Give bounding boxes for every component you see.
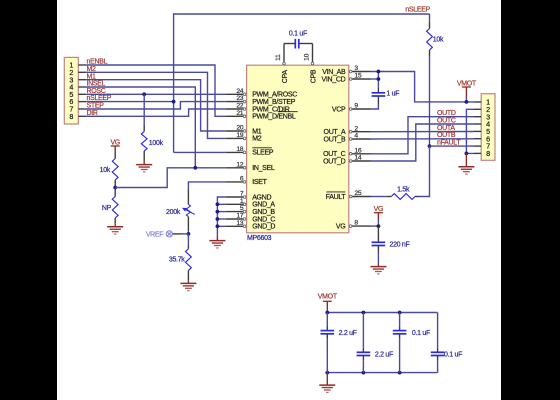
svg-text:nFAULT: nFAULT	[437, 140, 461, 147]
svg-text:OUTA: OUTA	[437, 125, 455, 132]
testpoint VREF lead	[172, 233, 188, 235]
wires GND_A..GND_D with junctions	[216, 202, 226, 228]
svg-text:ISET: ISET	[252, 179, 267, 186]
junction VG divider	[113, 186, 117, 190]
junction bottom rail C3	[398, 371, 402, 375]
svg-text:10k: 10k	[433, 36, 444, 43]
svg-text:2: 2	[354, 125, 358, 132]
svg-text:VREF: VREF	[146, 231, 163, 238]
svg-text:15: 15	[354, 73, 361, 80]
connector JP2 (motor/power header) body	[481, 94, 495, 161]
junction top rail C1	[325, 311, 329, 315]
svg-text:VG: VG	[336, 223, 346, 230]
U1 left pin names	[252, 92, 298, 231]
junction bottom rail C1	[325, 371, 329, 375]
black matte left	[0, 0, 57, 400]
svg-text:10k: 10k	[100, 167, 111, 174]
junction VIN_CD	[377, 77, 381, 81]
power symbol VG (right)	[374, 206, 384, 213]
VG right lead	[377, 213, 379, 226]
wire pot to VREF junction	[187, 231, 189, 234]
svg-text:OUTB: OUTB	[437, 132, 456, 139]
U1 top pin names CPA CPB	[282, 69, 318, 83]
svg-text:1 uF: 1 uF	[386, 91, 399, 98]
junction top rail C3	[398, 311, 402, 315]
svg-text:4: 4	[354, 133, 358, 140]
resistor 10k (VG divider)	[112, 159, 118, 181]
resistor 1.5k lead left	[386, 196, 391, 198]
svg-text:25: 25	[354, 190, 361, 197]
capacitor 0.1uF (charge pump) leads	[284, 43, 313, 45]
label 0.1 uF (top)	[289, 30, 307, 37]
svg-text:OUT_A: OUT_A	[324, 129, 346, 136]
svg-text:21: 21	[236, 110, 243, 117]
junction bottom rail C2	[362, 371, 366, 375]
wire OUT_B	[371, 138, 474, 140]
junction ROSC/100k	[142, 92, 146, 96]
label 35.7k	[169, 257, 185, 264]
capacitor 220nF	[372, 242, 386, 245]
resistor 35.7k lead top	[187, 234, 189, 249]
ground under 100k	[136, 165, 152, 172]
capacitor 220nF lead bottom	[377, 246, 379, 266]
U1 right pin stubs	[349, 70, 370, 227]
power symbol VMOT (right)	[457, 81, 477, 88]
svg-text:VMOT: VMOT	[318, 294, 338, 301]
ground under right connector	[458, 167, 474, 174]
wire GND pins 2-8	[466, 109, 473, 153]
connector JP1 pin numbers 1-8	[69, 61, 73, 121]
label nFAULT	[437, 140, 461, 147]
wire AGND bus	[217, 197, 225, 236]
cap bank ground lead	[326, 373, 328, 385]
svg-text:14: 14	[354, 155, 361, 162]
capacitor 2.2uF (C2)	[357, 313, 371, 373]
svg-text:19: 19	[236, 132, 243, 139]
U1 top pin numbers 11 10	[275, 53, 311, 60]
VG lead	[114, 146, 116, 159]
svg-text:8: 8	[354, 220, 358, 227]
svg-text:2.2 uF: 2.2 uF	[339, 330, 357, 337]
wire nENBL	[86, 65, 226, 116]
wire 10k down to nFAULT	[429, 56, 431, 146]
junction nFAULT	[428, 144, 432, 148]
svg-text:PWM_D/ENBL: PWM_D/ENBL	[252, 114, 296, 121]
resistor 1.5k	[391, 194, 415, 200]
op-amp U1 MP6603 body	[247, 65, 349, 233]
svg-text:0.1 uF: 0.1 uF	[289, 30, 307, 37]
svg-text:100k: 100k	[149, 140, 164, 147]
ground under AGND bus	[209, 241, 225, 248]
resistor 10k pull lead bottom	[429, 50, 431, 56]
svg-text:23: 23	[236, 95, 243, 102]
capacitor 2.2uF (C1)	[321, 313, 335, 373]
svg-text:OUT_D: OUT_D	[323, 158, 345, 165]
net labels nENBL M2 M1 INSEL ROSC nSLEEP STEP DIR	[87, 59, 112, 117]
wire STEP	[86, 102, 226, 109]
resistor 10k lead bottom	[114, 180, 116, 188]
resistor 10k pull lead top	[429, 23, 431, 29]
wire VIN vertical	[377, 72, 379, 89]
ground under cap bank	[319, 385, 335, 392]
svg-text:NP: NP	[102, 205, 112, 212]
testpoint VREF symbol	[166, 231, 172, 237]
svg-text:IN_SEL: IN_SEL	[252, 165, 275, 172]
svg-text:PWM_B/STEP: PWM_B/STEP	[252, 99, 296, 106]
svg-text:OUT_B: OUT_B	[324, 136, 346, 143]
svg-text:9: 9	[354, 103, 358, 110]
U1 left pin stubs	[226, 93, 246, 228]
VMOT lead	[465, 87, 467, 102]
wire M1	[86, 80, 226, 131]
junction VG	[377, 224, 381, 228]
wire nSLEEP horizontal	[86, 101, 174, 103]
svg-text:SLEEP: SLEEP	[252, 150, 274, 157]
potentiometer 200k lead bottom	[187, 217, 189, 232]
resistor NP lead top	[114, 188, 116, 197]
wire nFAULT vertical to 1.5k	[420, 146, 430, 196]
svg-text:M1: M1	[252, 128, 262, 135]
junction VREF	[187, 232, 191, 236]
potentiometer 200k	[186, 204, 190, 216]
svg-text:0.1 uF: 0.1 uF	[444, 352, 462, 359]
svg-text:0.1 uF: 0.1 uF	[412, 330, 430, 337]
junction top rail C2	[362, 311, 366, 315]
wire ROSC to 100k	[143, 94, 145, 125]
label nSLEEP (top)	[405, 7, 430, 14]
wire VIN_CD	[371, 78, 379, 80]
resistor 35.7k	[186, 249, 192, 271]
svg-text:3: 3	[354, 65, 358, 72]
svg-text:20: 20	[236, 125, 243, 132]
svg-text:GND_D: GND_D	[252, 224, 275, 231]
wire VG pin	[371, 225, 379, 227]
svg-text:1.5k: 1.5k	[397, 186, 410, 193]
U1 top pin stubs CPA CPB	[283, 44, 314, 65]
label OUTA	[437, 125, 455, 132]
connector JP2 pin numbers 1-8	[486, 98, 490, 158]
black matte right	[501, 0, 560, 400]
label 100k	[149, 140, 164, 147]
label OUTB	[437, 132, 456, 139]
U1 right pin numbers	[354, 65, 361, 227]
svg-text:M2: M2	[252, 136, 262, 143]
label 10k (VG divider)	[100, 167, 111, 174]
svg-text:24: 24	[236, 88, 243, 95]
wire M2	[86, 72, 226, 138]
wire ROSC	[86, 93, 226, 95]
wire OUT_A	[371, 131, 474, 133]
capacitor 0.1uF (C3)	[393, 313, 407, 373]
label NP	[102, 205, 112, 212]
U1 right pin names	[322, 69, 347, 231]
svg-text:CPB: CPB	[310, 69, 317, 83]
svg-text:GND_C: GND_C	[252, 216, 275, 223]
svg-text:5: 5	[240, 205, 244, 212]
svg-text:18: 18	[236, 146, 243, 153]
svg-text:8: 8	[486, 149, 490, 158]
svg-text:PWM_C/DIR: PWM_C/DIR	[252, 106, 290, 113]
resistor 35.7k lead bottom	[187, 270, 189, 283]
label 200k	[166, 209, 181, 216]
power symbol VMOT (bottom)	[318, 294, 338, 302]
svg-text:VIN_CD: VIN_CD	[322, 76, 346, 83]
label 1 uF	[386, 91, 399, 98]
U1 left pin numbers	[236, 88, 243, 227]
label OUTD	[437, 110, 456, 117]
svg-text:VCP: VCP	[332, 106, 346, 113]
label 0.1 uF (C4)	[444, 352, 462, 359]
wire nSLEEP vertical to top	[174, 14, 430, 152]
potentiometer 200k wiper arrow	[182, 208, 195, 215]
svg-text:VIN_AB: VIN_AB	[322, 69, 346, 76]
svg-text:22: 22	[236, 103, 243, 110]
svg-text:220 nF: 220 nF	[390, 241, 410, 248]
capacitor 1uF lead bottom	[377, 96, 379, 104]
wire VIN_AB	[371, 72, 474, 102]
svg-text:13: 13	[236, 220, 243, 227]
label MP6603	[247, 235, 272, 242]
resistor 100k	[141, 132, 147, 152]
resistor NP	[112, 197, 118, 219]
wire nSLEEP down to 10k	[429, 14, 431, 23]
resistor 1.5k lead right	[415, 196, 420, 198]
junction GND pin 8	[465, 152, 469, 156]
svg-text:OUT_C: OUT_C	[323, 151, 345, 158]
svg-text:GND_A: GND_A	[252, 202, 275, 209]
svg-text:CPA: CPA	[282, 70, 289, 84]
svg-text:PWM_A/ROSC: PWM_A/ROSC	[252, 92, 297, 99]
label OUTC	[437, 118, 456, 125]
label 2.2 uF (C2)	[375, 352, 393, 359]
svg-text:8: 8	[69, 112, 73, 121]
capacitor 1uF	[372, 93, 386, 96]
AGND bus lead to ground	[216, 236, 218, 240]
resistor 100k lead top	[143, 125, 145, 132]
connector JP1 pin stubs	[78, 65, 86, 116]
resistor NP lead bottom	[114, 218, 116, 226]
label 2.2 uF (C1)	[339, 330, 357, 337]
capacitor 1uF lead top	[377, 88, 379, 93]
wire cap bank bottom rail	[327, 372, 437, 374]
junction nSLEEP tee	[172, 100, 176, 104]
capacitor 0.1uF (charge pump)	[295, 39, 299, 49]
junction VIN_AB	[377, 70, 381, 74]
wire INSEL	[86, 87, 195, 168]
capacitor 0.1uF (C4)	[431, 313, 445, 373]
wire VCP	[371, 105, 379, 110]
connector JP1 (control header) body	[64, 57, 78, 124]
svg-text:16: 16	[354, 147, 361, 154]
wire DIR	[86, 109, 226, 116]
resistor 100k lead bottom	[143, 151, 145, 164]
junction VMOT	[465, 100, 469, 104]
svg-text:MP6603: MP6603	[247, 235, 272, 242]
label 220 nF	[390, 241, 410, 248]
wire ISET	[188, 182, 225, 190]
ground under 220nF	[370, 267, 386, 274]
wire SLEEP to pin 18	[174, 151, 226, 153]
capacitor 220nF lead top	[377, 226, 379, 242]
svg-text:1: 1	[240, 198, 244, 205]
svg-text:200k: 200k	[166, 209, 181, 216]
svg-text:AGND: AGND	[252, 194, 271, 201]
svg-text:OUTD: OUTD	[437, 110, 456, 117]
resistor 10k (nSLEEP pull-up)	[427, 29, 433, 51]
svg-text:nSLEEP: nSLEEP	[405, 7, 430, 14]
wire OUT_D	[371, 124, 474, 161]
svg-text:GND_B: GND_B	[252, 209, 275, 216]
power symbol VG (left)	[110, 140, 120, 147]
svg-text:FAULT: FAULT	[326, 194, 347, 201]
svg-text:10: 10	[304, 53, 311, 60]
label VREF	[146, 231, 163, 238]
connector JP2 pin stubs	[474, 102, 482, 153]
GND lead below pin 8	[465, 153, 467, 166]
wire cap bank top rail	[327, 312, 437, 314]
wire nFAULT to connector	[430, 145, 474, 147]
svg-text:11: 11	[275, 54, 282, 61]
svg-text:OUTC: OUTC	[437, 118, 456, 125]
wire OUT_C	[371, 117, 474, 154]
label 0.1 uF (C3)	[412, 330, 430, 337]
svg-text:17: 17	[236, 213, 243, 220]
ground under NP	[107, 227, 123, 234]
junction INSEL/IN_SEL	[193, 166, 197, 170]
VMOT bottom lead	[326, 301, 328, 312]
ground under 35.7k	[180, 283, 196, 290]
svg-text:7: 7	[240, 191, 244, 198]
svg-text:2.2 uF: 2.2 uF	[375, 352, 393, 359]
wire IN_SEL from divider	[115, 168, 226, 188]
svg-text:6: 6	[240, 176, 244, 183]
label 1.5k	[397, 186, 410, 193]
svg-text:35.7k: 35.7k	[169, 257, 185, 264]
label 10k (pull-up)	[433, 36, 444, 43]
svg-text:12: 12	[236, 161, 243, 168]
potentiometer 200k lead top	[187, 190, 189, 204]
wire FAULT to 1.5k	[371, 196, 387, 198]
